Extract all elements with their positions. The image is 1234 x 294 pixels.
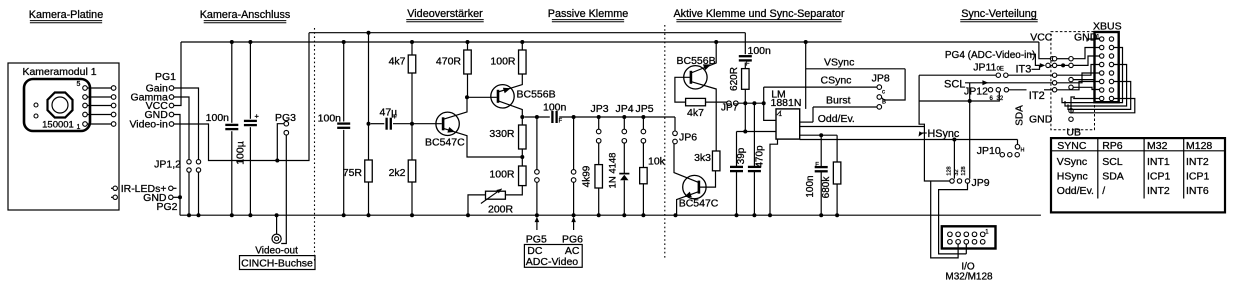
svg-text:H: H — [1021, 148, 1025, 154]
svg-text:AC: AC — [565, 245, 580, 257]
svg-text:100n: 100n — [805, 175, 816, 197]
svg-text:JP1,2: JP1,2 — [154, 159, 181, 171]
svg-text:Passive Klemme: Passive Klemme — [548, 8, 628, 20]
svg-text:100n: 100n — [748, 45, 772, 57]
svg-text:JP6: JP6 — [679, 132, 697, 144]
svg-text:BC547C: BC547C — [679, 198, 719, 210]
svg-text:100R: 100R — [489, 169, 515, 181]
svg-text:VSync: VSync — [1057, 156, 1087, 168]
svg-text:128: 128 — [947, 166, 953, 175]
svg-text:c: c — [882, 90, 885, 96]
svg-text:1N 4148: 1N 4148 — [608, 153, 619, 189]
svg-text:10k: 10k — [648, 156, 666, 168]
svg-text:SDA: SDA — [1102, 171, 1124, 183]
svg-text:+: + — [255, 112, 260, 121]
svg-text:PG4 (ADC-Video-in): PG4 (ADC-Video-in) — [945, 50, 1035, 61]
svg-text:JP8: JP8 — [872, 73, 890, 85]
svg-text:5: 5 — [77, 81, 81, 88]
svg-text:Video-in: Video-in — [129, 119, 167, 131]
svg-text:JP9: JP9 — [972, 177, 990, 189]
svg-text:Sync-Verteilung: Sync-Verteilung — [961, 8, 1037, 20]
svg-text:4k7: 4k7 — [687, 107, 704, 119]
svg-text:M32: M32 — [1147, 140, 1168, 152]
svg-text:100n: 100n — [318, 113, 342, 125]
svg-text:UB: UB — [1066, 127, 1081, 139]
svg-text:4k7: 4k7 — [389, 56, 406, 68]
svg-text:150001: 150001 — [42, 120, 74, 131]
svg-text:ICP1: ICP1 — [1186, 171, 1210, 183]
svg-text:JP11: JP11 — [973, 62, 996, 74]
svg-text:39p: 39p — [736, 147, 747, 164]
svg-text:100R: 100R — [490, 56, 516, 68]
svg-text:M128: M128 — [1186, 140, 1212, 152]
svg-text:Video-out: Video-out — [255, 246, 298, 257]
svg-text:JP3: JP3 — [591, 103, 609, 115]
svg-text:ADC-Video: ADC-Video — [526, 256, 578, 268]
svg-text:F: F — [559, 119, 563, 125]
svg-text:F: F — [815, 162, 819, 168]
svg-text:INT2: INT2 — [1147, 185, 1170, 197]
svg-text:100n: 100n — [543, 102, 567, 114]
svg-text:PG1: PG1 — [155, 71, 176, 83]
svg-text:F: F — [746, 61, 750, 67]
svg-text:CINCH-Buchse: CINCH-Buchse — [241, 257, 313, 269]
svg-text:1: 1 — [77, 124, 81, 131]
svg-text:VSync: VSync — [824, 57, 854, 69]
svg-text:SDA: SDA — [1015, 105, 1026, 126]
svg-text:VCC: VCC — [1030, 32, 1053, 44]
svg-text:BC556B: BC556B — [517, 89, 556, 101]
svg-text:IT2: IT2 — [1029, 90, 1045, 102]
svg-text:+: + — [393, 112, 398, 121]
svg-text:JP4: JP4 — [616, 103, 634, 115]
svg-text:BC547C: BC547C — [425, 137, 465, 149]
svg-text:Videoverstärker: Videoverstärker — [407, 8, 483, 20]
svg-text:INT1: INT1 — [1147, 156, 1170, 168]
svg-text:0E: 0E — [997, 66, 1004, 72]
svg-text:SCL: SCL — [1102, 156, 1123, 168]
svg-text:32: 32 — [997, 96, 1004, 102]
svg-text:470p: 470p — [754, 145, 765, 168]
svg-text:INT2: INT2 — [1186, 156, 1209, 168]
svg-text:JP12: JP12 — [964, 85, 988, 97]
svg-text:620R: 620R — [729, 67, 740, 91]
svg-text:Kameramodul 1: Kameramodul 1 — [22, 66, 96, 78]
svg-text:2k2: 2k2 — [389, 167, 406, 179]
svg-text:Kamera-Platine: Kamera-Platine — [29, 9, 103, 21]
svg-text:M32/M128: M32/M128 — [945, 272, 993, 283]
svg-text:RP6: RP6 — [1102, 140, 1123, 152]
svg-text:200R: 200R — [488, 204, 514, 216]
svg-text:Odd/Ev.: Odd/Ev. — [818, 113, 855, 125]
svg-text:GND: GND — [1029, 114, 1053, 126]
svg-text:JP10: JP10 — [977, 145, 1001, 157]
svg-text:PG6: PG6 — [562, 234, 583, 246]
svg-text:INT6: INT6 — [1186, 185, 1209, 197]
svg-text:100n: 100n — [206, 112, 230, 124]
svg-text:ICP1: ICP1 — [1147, 171, 1171, 183]
svg-text:128: 128 — [961, 166, 967, 175]
svg-text:JP7: JP7 — [721, 103, 739, 114]
svg-text:Odd/Ev.: Odd/Ev. — [1057, 185, 1094, 197]
svg-text:75R: 75R — [343, 167, 363, 179]
svg-text:JP5: JP5 — [636, 103, 654, 115]
svg-text:100µ: 100µ — [235, 141, 247, 165]
svg-text:4k99: 4k99 — [582, 165, 593, 187]
svg-text:3k3: 3k3 — [694, 152, 711, 164]
svg-text:1881N: 1881N — [771, 97, 802, 109]
svg-text:Burst: Burst — [826, 95, 851, 107]
svg-text:PG2: PG2 — [156, 201, 177, 213]
svg-text:470R: 470R — [436, 56, 462, 68]
svg-text:IT3: IT3 — [1016, 64, 1032, 76]
svg-text:Kamera-Anschluss: Kamera-Anschluss — [200, 9, 291, 21]
svg-text:HSync: HSync — [1057, 171, 1088, 183]
svg-text:CSync: CSync — [821, 75, 852, 87]
svg-text:330R: 330R — [489, 128, 515, 140]
svg-text:680k: 680k — [821, 176, 832, 199]
svg-text:Aktive Klemme und Sync-Separat: Aktive Klemme und Sync-Separator — [673, 8, 844, 20]
svg-text:SCL: SCL — [944, 79, 965, 91]
svg-text:/: / — [1102, 185, 1105, 197]
svg-text:PG5: PG5 — [526, 234, 547, 246]
svg-text:SYNC: SYNC — [1057, 140, 1087, 152]
svg-text:DC: DC — [527, 245, 543, 257]
